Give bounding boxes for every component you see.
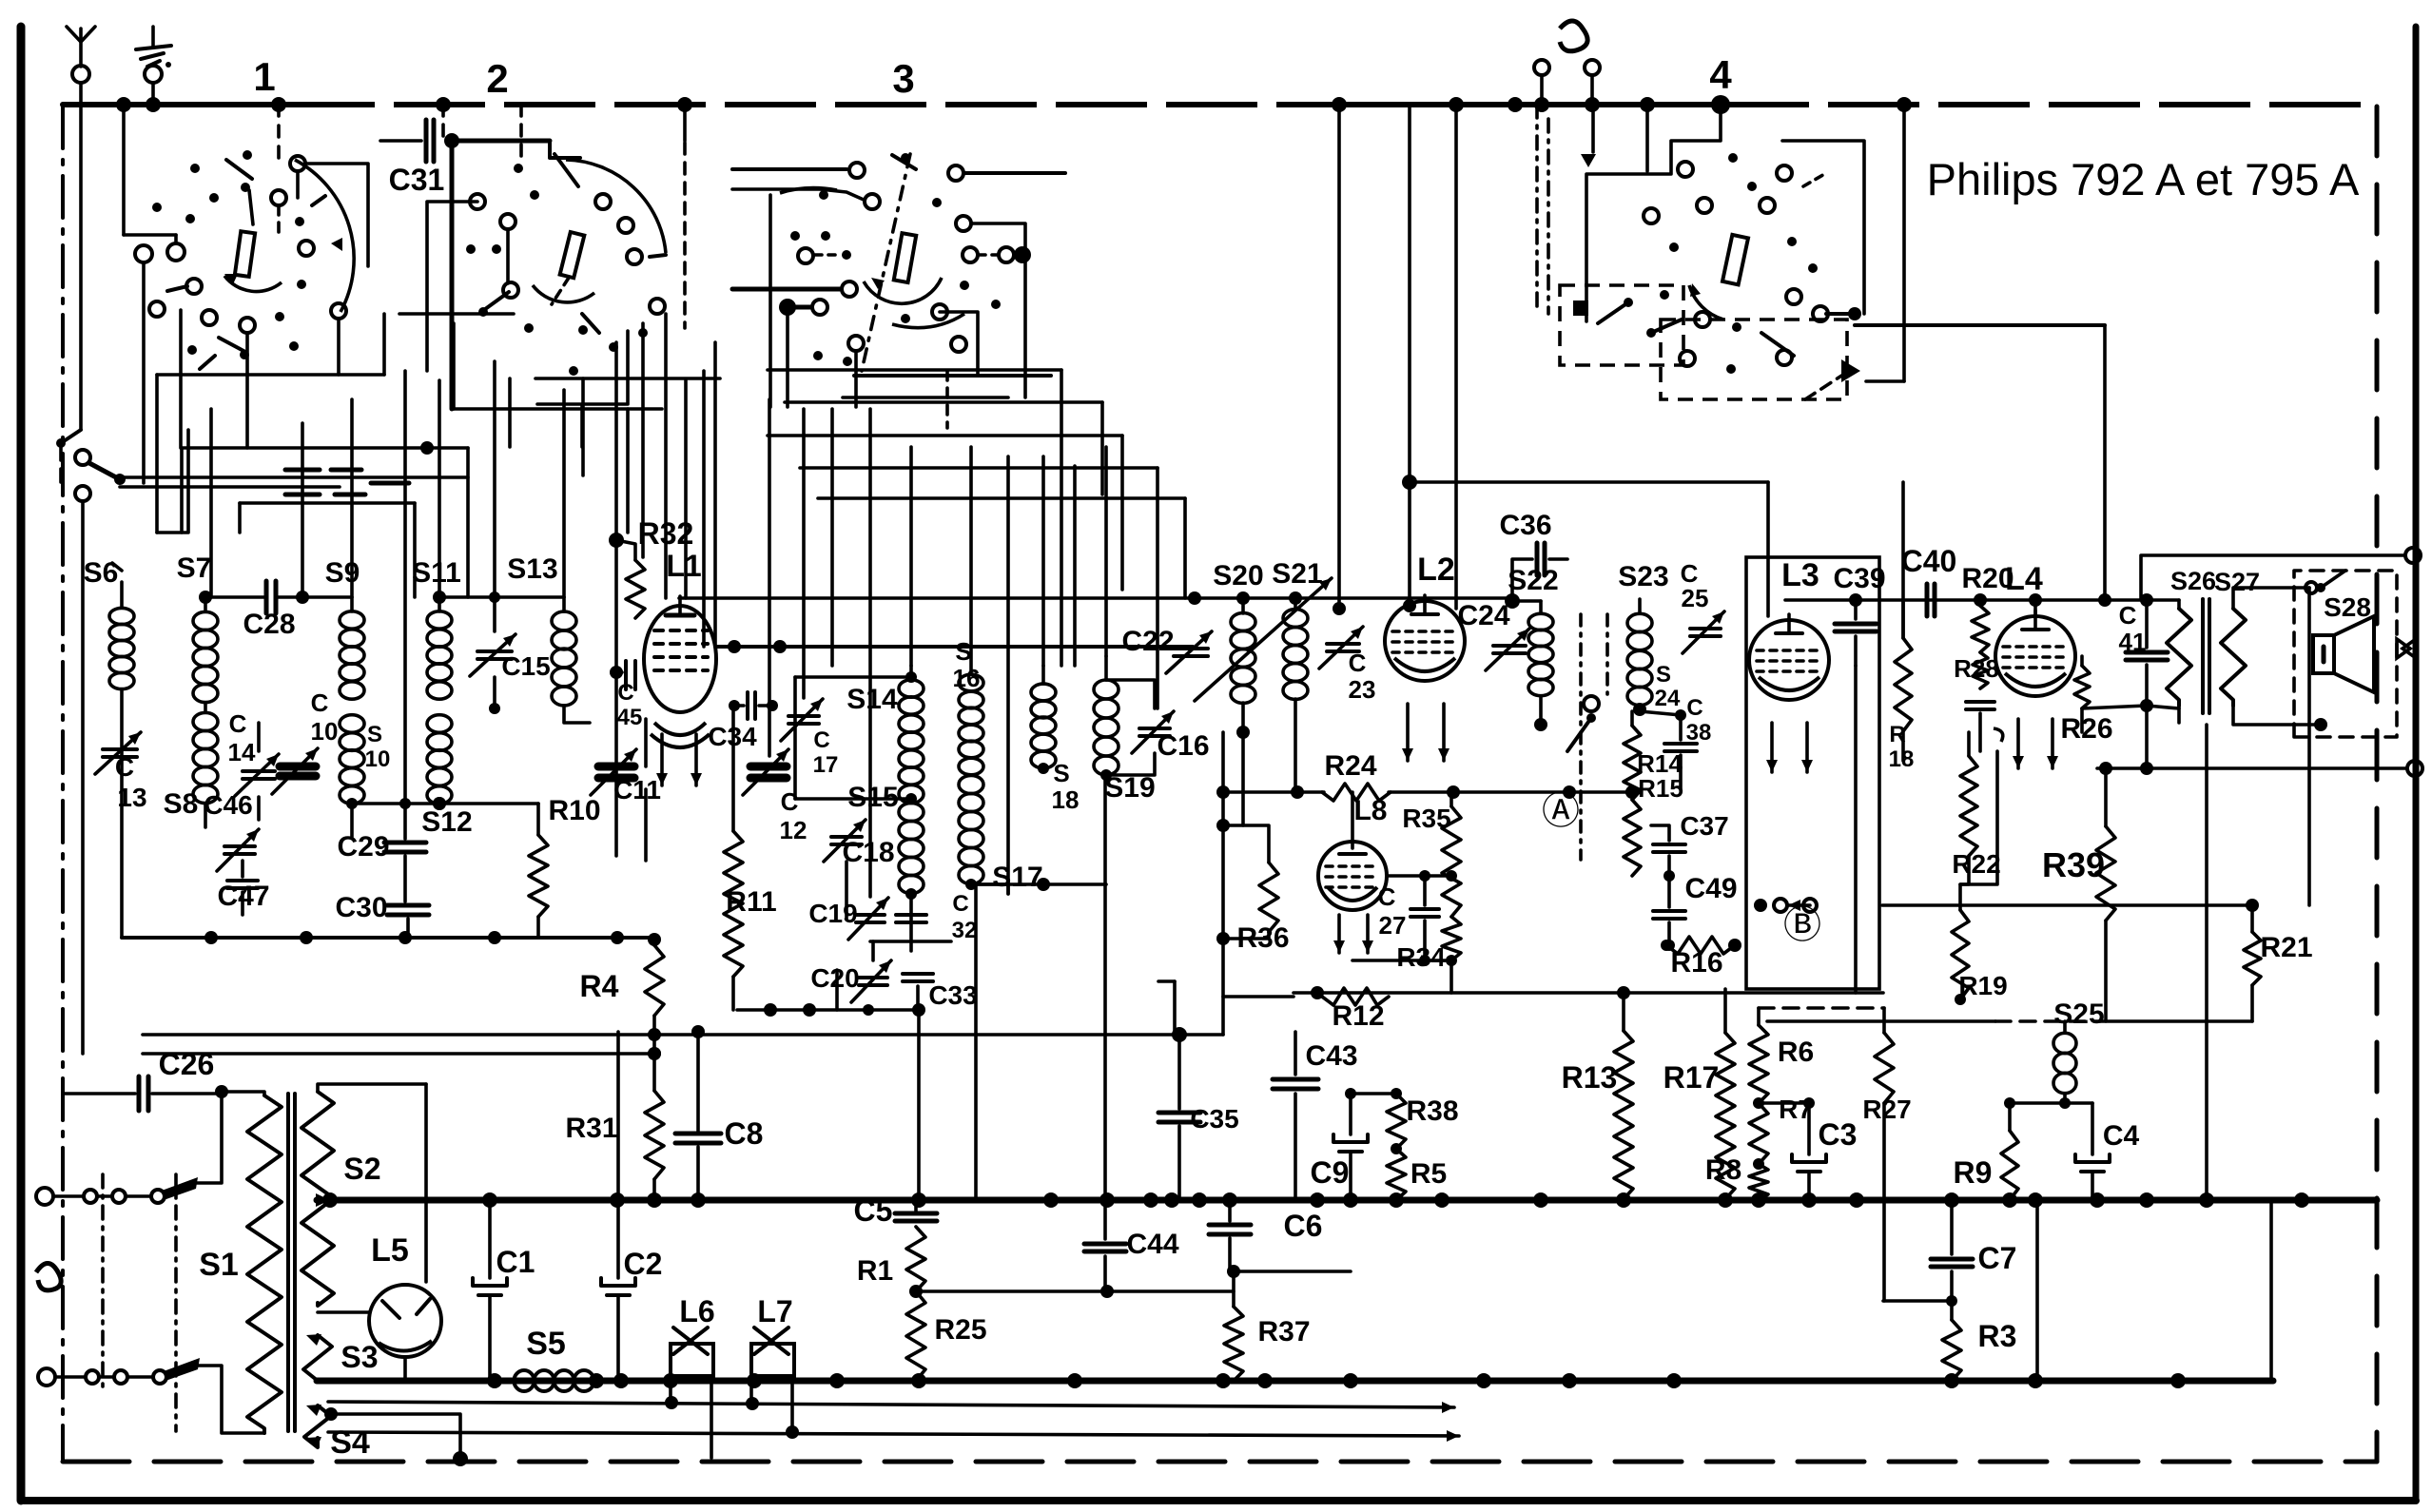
label C36 — [1499, 510, 1551, 541]
resistor R39 — [2096, 768, 2115, 1021]
label C19 — [808, 899, 857, 928]
capacitor C23 var — [1319, 627, 1363, 669]
wire stair1 — [768, 370, 1061, 666]
svg-text:R26: R26 — [2060, 713, 2112, 745]
S2 tap arrow — [316, 1193, 330, 1207]
coil S20 — [1231, 591, 1255, 703]
capacitor C6 — [1209, 1200, 1251, 1271]
label C15 — [501, 651, 550, 681]
wire sw1-a — [157, 430, 188, 533]
label S13 — [507, 553, 557, 585]
wire nest y398 — [535, 377, 720, 380]
wire L8 topcap — [1339, 792, 1366, 854]
section label 1 — [253, 54, 275, 99]
wire B row — [1882, 903, 2252, 907]
svg-text:14: 14 — [228, 738, 256, 766]
cathode arrow L1b — [691, 734, 702, 785]
resistor R5b — [1387, 1143, 1406, 1200]
svg-text:R10: R10 — [548, 795, 600, 826]
label C33 — [928, 980, 977, 1010]
label C49 — [1684, 873, 1737, 904]
svg-text:L8: L8 — [1353, 795, 1387, 826]
svg-text:R1: R1 — [857, 1255, 893, 1287]
svg-text:Ⓑ: Ⓑ — [1783, 904, 1821, 946]
bus junction — [1449, 97, 1464, 112]
variable capacitor C13 — [95, 732, 141, 774]
coil S7 — [193, 591, 218, 703]
label R35 — [1402, 804, 1450, 833]
label R3 — [1978, 1319, 2017, 1353]
capacitor C20 var — [851, 960, 891, 1002]
label C38 — [1686, 695, 1712, 746]
wire vmid — [802, 409, 806, 698]
svg-text:C16: C16 — [1157, 730, 1209, 762]
svg-text:S28: S28 — [2324, 592, 2371, 622]
svg-text:L4: L4 — [2005, 561, 2043, 597]
rotary switch bank SW4 — [1537, 105, 1864, 399]
wire anode row — [716, 640, 1193, 653]
capacitor C38 — [1640, 709, 1697, 789]
bus junction — [271, 97, 286, 112]
label S4 — [330, 1425, 370, 1461]
wire v370 — [350, 399, 354, 597]
svg-text:S: S — [367, 722, 382, 747]
label C4 — [2103, 1120, 2140, 1152]
svg-text:S23: S23 — [1618, 561, 1668, 592]
svg-text:S9: S9 — [325, 557, 360, 589]
wire S26 bot3 — [2177, 706, 2181, 723]
wire nest v404 — [382, 314, 386, 375]
tube L8 — [1318, 842, 1387, 910]
svg-text:S20: S20 — [1213, 560, 1263, 591]
wire sw1-b — [59, 447, 63, 490]
label R16 — [1670, 947, 1722, 979]
label R21 — [2260, 932, 2312, 963]
speaker dash frame — [2294, 571, 2397, 737]
coil S15 — [899, 785, 924, 900]
label C3 — [1819, 1117, 1858, 1152]
label C41 — [2119, 601, 2147, 656]
cathode arrow L3b — [1801, 723, 1813, 772]
mains terminal 2 — [38, 1368, 84, 1386]
wire vmid — [1006, 456, 1010, 894]
section label 4 — [1709, 52, 1732, 97]
wire S25 box — [1759, 1006, 1884, 1010]
resistor R3 — [1883, 1301, 1961, 1381]
svg-text:C29: C29 — [337, 831, 389, 863]
svg-text:R27: R27 — [1862, 1095, 1911, 1124]
resistor R4 — [645, 933, 664, 1060]
wire nest hatch — [285, 470, 409, 494]
svg-text:C: C — [229, 709, 247, 738]
svg-text:C35: C35 — [1190, 1104, 1238, 1134]
wire S15 bottom — [870, 894, 951, 951]
label R22 — [1952, 849, 2000, 879]
svg-text:S2: S2 — [343, 1152, 380, 1186]
label C6 — [1284, 1209, 1323, 1243]
mains connector symbol — [1534, 21, 1600, 105]
svg-text:L3: L3 — [1781, 557, 1819, 593]
label C24 — [1457, 600, 1509, 631]
bus junction big — [1711, 95, 1730, 114]
tuning arrow S20/S21 — [1195, 578, 1332, 701]
resistor R21 — [2244, 932, 2261, 1021]
svg-text:S4: S4 — [330, 1425, 370, 1461]
wire vmid — [969, 447, 973, 674]
svg-text:C28: C28 — [243, 609, 295, 640]
trimmer C12 — [743, 749, 788, 795]
svg-text:C40: C40 — [1901, 544, 1957, 578]
resistor R8 — [1749, 1158, 1768, 1200]
label S7 — [177, 552, 212, 584]
dashdot A1 — [1579, 614, 1583, 860]
tube L4 — [1995, 611, 2075, 696]
label C28 — [243, 609, 295, 640]
wire v679 — [644, 719, 648, 861]
wire y1358 — [909, 1285, 1234, 1298]
wire S17 link — [971, 878, 1106, 894]
label C17 — [813, 727, 839, 778]
capacitor C9 — [1333, 1088, 1396, 1200]
svg-text:C8: C8 — [725, 1116, 764, 1151]
wire L5 cath — [403, 1357, 407, 1381]
trimmer C10 — [272, 748, 318, 794]
svg-text:C36: C36 — [1499, 510, 1551, 541]
capacitor C44 — [1084, 1244, 1126, 1291]
S2 top hook — [318, 1084, 426, 1092]
svg-text:C11: C11 — [613, 775, 661, 804]
svg-text:18: 18 — [1052, 785, 1080, 814]
rotary switch bank SW2 — [399, 105, 666, 447]
coil S6 — [109, 563, 134, 938]
bus junction — [1534, 97, 1549, 112]
label R18 — [1889, 722, 1915, 772]
label R11 — [726, 886, 776, 918]
resistor R12 — [1322, 988, 1389, 1005]
wire y1044 — [1294, 986, 1883, 999]
wire v426 — [403, 371, 407, 804]
resistor R32 — [609, 533, 645, 618]
svg-text:L5: L5 — [371, 1232, 409, 1269]
switch B — [1754, 899, 1821, 946]
variable capacitor C22 — [1166, 631, 1212, 673]
label R7 — [1779, 1095, 1813, 1124]
dial lamp arrow wire 1 — [328, 1396, 1454, 1413]
wire S11-S13 top — [433, 591, 564, 604]
coil S18 — [1031, 684, 1056, 774]
wire vmid — [768, 399, 771, 756]
svg-text:41: 41 — [2119, 628, 2147, 656]
label C2 — [624, 1247, 663, 1281]
svg-text:C: C — [1349, 649, 1367, 677]
svg-text:R32: R32 — [638, 516, 694, 551]
resistor R25 — [906, 1291, 925, 1381]
capacitor C36 — [1512, 543, 1567, 594]
label R25 — [934, 1314, 986, 1346]
label C29 — [337, 831, 389, 863]
capacitor C8 — [675, 1025, 721, 1200]
wire vmid — [909, 447, 913, 666]
resistor R9 — [2001, 1097, 2018, 1200]
wire S14 top — [795, 677, 911, 799]
L3 unit outline — [1746, 557, 1879, 989]
label R34 — [1396, 942, 1446, 972]
label C27 — [1378, 882, 1407, 940]
svg-text:R9: R9 — [1954, 1155, 1993, 1190]
wire v2257b — [2145, 704, 2149, 768]
wire S4 tap — [324, 1407, 468, 1466]
page border left — [17, 27, 26, 1501]
svg-text:R31: R31 — [565, 1113, 617, 1144]
svg-text:C6: C6 — [1284, 1209, 1323, 1243]
svg-text:S: S — [1053, 759, 1069, 787]
title text — [1927, 154, 2360, 204]
wire nest v660 — [626, 409, 630, 533]
wire R19 frame — [1960, 751, 1997, 884]
label C18 — [842, 837, 894, 868]
svg-text:L1: L1 — [666, 549, 701, 583]
svg-text:R4: R4 — [580, 969, 619, 1003]
wire vmid — [713, 342, 717, 647]
svg-text:S6: S6 — [84, 557, 119, 589]
svg-text:C1: C1 — [496, 1245, 535, 1279]
wire nest y394 — [157, 373, 384, 377]
coil S21 — [1283, 591, 1308, 699]
svg-text:1: 1 — [253, 54, 275, 99]
label L3 — [1781, 557, 1819, 593]
label S17 — [992, 862, 1042, 893]
svg-text:C2: C2 — [624, 1247, 663, 1281]
top supply bus — [63, 102, 2377, 107]
svg-text:C30: C30 — [335, 892, 387, 923]
rotary switch bank SW1 — [56, 105, 368, 483]
resistor R17 — [1716, 989, 1735, 1199]
svg-text:C4: C4 — [2103, 1120, 2140, 1152]
capacitor C4 — [2010, 1103, 2110, 1200]
label C20 — [810, 963, 859, 993]
tube L2 — [1385, 595, 1465, 681]
label S20 — [1213, 560, 1263, 591]
capacitor C27 — [1411, 876, 1439, 960]
capacitor C7 — [1931, 1200, 1973, 1307]
wire vmid — [868, 409, 872, 897]
svg-text:S8: S8 — [164, 788, 199, 820]
svg-text:S17: S17 — [992, 862, 1042, 893]
svg-text:C: C — [813, 727, 829, 753]
svg-text:R13: R13 — [1562, 1060, 1618, 1095]
svg-text:R5: R5 — [1411, 1158, 1447, 1190]
capacitor C43 — [1273, 1032, 1318, 1200]
cathode arrow L1a — [656, 734, 668, 785]
label C23 — [1349, 649, 1376, 704]
label C10 — [311, 688, 339, 746]
wire stair5 — [818, 498, 1185, 598]
svg-text:C43: C43 — [1305, 1040, 1357, 1072]
resistor R38 — [1387, 1088, 1406, 1149]
coil S13 — [552, 597, 590, 723]
label S1 — [199, 1247, 239, 1283]
wire nest v165 — [155, 375, 159, 533]
wire v2320 — [2205, 725, 2208, 1200]
label S26 — [2170, 567, 2216, 595]
svg-text:R16: R16 — [1670, 947, 1722, 979]
tube L3 — [1749, 614, 1829, 700]
label S19 — [1104, 772, 1155, 804]
capacitor C41 — [2126, 600, 2168, 704]
label R38 — [1406, 1095, 1458, 1127]
svg-text:S13: S13 — [507, 553, 557, 585]
aerial selector lever — [75, 450, 126, 485]
wire R24 row — [1216, 785, 1639, 799]
resistor R7 — [1749, 1097, 1768, 1164]
dashdot A2 — [1605, 614, 1609, 694]
variable capacitor C46 — [217, 829, 259, 871]
wire nest v477 — [452, 323, 456, 409]
label C44 — [1126, 1229, 1178, 1260]
wire y1085 — [143, 981, 1223, 1042]
svg-text:C44: C44 — [1126, 1229, 1178, 1260]
label R39 — [2042, 845, 2105, 884]
wire R12 row — [1223, 995, 1294, 998]
wire v2142 — [2035, 1200, 2039, 1381]
bus junction — [436, 97, 451, 112]
svg-text:C: C — [311, 688, 329, 717]
resistor R27 — [1875, 1008, 1894, 1301]
svg-text:R17: R17 — [1663, 1060, 1720, 1095]
wire S12 row — [352, 797, 538, 810]
label S25 — [2053, 998, 2104, 1030]
capacitor C34 — [729, 692, 778, 719]
wire sw4 right — [1855, 323, 2105, 327]
label R15 — [1638, 774, 1683, 803]
output transformer S26 — [2167, 600, 2191, 706]
secondary S2 — [302, 1092, 334, 1306]
coil L6 — [671, 1328, 713, 1458]
wire right mid — [2097, 761, 2422, 776]
wire S2 to L5 — [424, 1084, 428, 1282]
label C16 — [1157, 730, 1209, 762]
capacitor C39 — [1835, 600, 1877, 666]
coil S10 — [340, 715, 364, 837]
svg-text:45: 45 — [617, 705, 643, 730]
svg-text:R6: R6 — [1778, 1037, 1814, 1068]
svg-text:R25: R25 — [934, 1314, 986, 1346]
wire nest v536 — [508, 378, 512, 447]
wire sw4 right drop — [2098, 325, 2111, 607]
wire stair3 — [768, 436, 1122, 590]
wire v322 — [301, 423, 304, 597]
svg-text:C31: C31 — [389, 163, 445, 197]
wire v520 — [493, 361, 496, 597]
wire bus drop 1408 — [1333, 105, 1346, 615]
svg-text:10: 10 — [365, 746, 391, 772]
resistor R26 — [2074, 656, 2090, 732]
mains transformer S1 — [247, 1095, 282, 1433]
wire sw4 arrow wire — [1866, 379, 1904, 383]
wire v1951 — [1854, 666, 1858, 993]
svg-text:24: 24 — [1655, 686, 1681, 711]
resistor R34 — [1442, 917, 1461, 993]
svg-text:C9: C9 — [1311, 1155, 1350, 1190]
svg-text:C37: C37 — [1680, 811, 1728, 841]
capacitor C30 — [387, 905, 429, 938]
resistor R13 — [1614, 993, 1633, 1199]
label L7 — [757, 1294, 792, 1328]
svg-text:C33: C33 — [928, 980, 977, 1010]
wire S19 frame — [1106, 656, 1155, 775]
svg-text:S27: S27 — [2214, 568, 2260, 596]
wire v2388 — [2269, 1200, 2273, 1381]
ground symbol — [136, 27, 171, 105]
label C45 — [617, 680, 643, 730]
wire v676 — [641, 323, 645, 557]
svg-text:Philips 792 A et 795 A: Philips 792 A et 795 A — [1927, 154, 2360, 204]
label L8 — [1353, 795, 1387, 826]
coil L7 — [751, 1328, 799, 1439]
wire y507 — [1402, 475, 1768, 616]
svg-text:C24: C24 — [1457, 600, 1509, 631]
wire nest y502 — [120, 475, 468, 479]
bus junction — [677, 97, 692, 112]
label R37 — [1257, 1316, 1310, 1347]
svg-text:C18: C18 — [842, 837, 894, 868]
label R19 — [1958, 971, 2007, 1000]
svg-text:S1: S1 — [199, 1247, 239, 1283]
wire R36 frame — [1216, 732, 1269, 1035]
wire nest v492 — [466, 448, 470, 597]
page border bottom — [24, 1497, 2416, 1504]
svg-text:S21: S21 — [1272, 558, 1322, 590]
label S8 — [164, 788, 199, 820]
label C26 — [159, 1047, 215, 1081]
resistor R16 — [1661, 937, 1741, 954]
section label 2 — [486, 56, 508, 101]
wire nest y529 — [240, 503, 415, 597]
wire bus drop 1482 — [1408, 105, 1411, 482]
wire bus drop 1531 — [1454, 105, 1458, 609]
capacitor C1 — [473, 1200, 507, 1381]
label C9 — [1311, 1155, 1350, 1190]
tube L5 body — [369, 1285, 441, 1357]
wire S15 tap — [795, 793, 917, 804]
svg-text:R21: R21 — [2260, 932, 2312, 963]
label L6 — [679, 1294, 714, 1328]
variable capacitor C18 — [824, 820, 866, 862]
svg-text:R38: R38 — [1406, 1095, 1458, 1127]
svg-text:S26: S26 — [2170, 567, 2216, 595]
label S3 — [340, 1340, 378, 1374]
coil S22 — [1505, 593, 1553, 731]
wire vmid — [1073, 466, 1077, 666]
svg-text:C20: C20 — [810, 963, 859, 993]
svg-text:10: 10 — [311, 717, 339, 746]
variable capacitor C14 — [235, 723, 279, 820]
svg-text:C: C — [952, 891, 968, 917]
coil S23 — [1627, 599, 1652, 716]
svg-text:R35: R35 — [1402, 804, 1450, 833]
wire S25 row — [1767, 1019, 2252, 1023]
wire bus drop 2002 — [1902, 105, 1906, 381]
label C39 — [1833, 563, 1885, 594]
label R27 — [1862, 1095, 1911, 1124]
wire L5 left — [318, 1310, 369, 1314]
bus junction — [1508, 97, 1523, 112]
label R20 — [1961, 563, 2014, 594]
svg-text:23: 23 — [1349, 675, 1376, 704]
capacitor C42 — [1966, 702, 1994, 751]
label C30 — [335, 892, 387, 923]
wire grid row — [679, 591, 1511, 605]
